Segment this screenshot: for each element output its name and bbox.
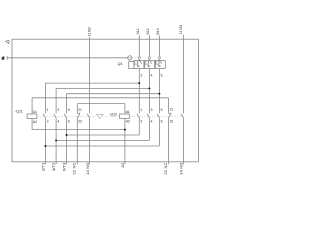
svg-text:14 NO: 14 NO (85, 162, 90, 174)
svg-text:-Q12: -Q12 (109, 112, 117, 116)
svg-text:6: 6 (161, 120, 163, 124)
svg-text:14 NO: 14 NO (179, 162, 184, 174)
svg-text:4: 4 (58, 120, 60, 124)
svg-text:6: 6 (161, 74, 163, 78)
svg-text:A2: A2 (126, 120, 130, 124)
svg-text:A2: A2 (33, 120, 37, 124)
svg-text:4: 4 (151, 74, 153, 78)
svg-text:-Q11: -Q11 (15, 110, 23, 114)
svg-text:A1: A1 (126, 110, 130, 114)
svg-text:1: 1 (141, 108, 143, 112)
svg-text:3: 3 (151, 108, 153, 112)
svg-text:-Q: -Q (5, 39, 10, 44)
svg-text:22: 22 (78, 120, 82, 124)
svg-text:13 NO: 13 NO (179, 24, 183, 34)
svg-text:3/L2: 3/L2 (146, 28, 150, 35)
svg-text:1: 1 (47, 108, 49, 112)
svg-text:21: 21 (78, 108, 82, 112)
svg-text:4: 4 (151, 120, 153, 124)
svg-text:-Q1: -Q1 (117, 62, 123, 66)
svg-text:4/T2: 4/T2 (51, 162, 56, 171)
svg-text:22 NC: 22 NC (71, 162, 76, 174)
svg-text:3: 3 (58, 108, 60, 112)
svg-text:5/L3: 5/L3 (156, 28, 160, 35)
svg-text:2: 2 (47, 120, 49, 124)
svg-text:2/T1: 2/T1 (40, 162, 45, 171)
svg-text:2: 2 (141, 120, 143, 124)
svg-text:A2: A2 (120, 162, 125, 168)
svg-text:6: 6 (68, 120, 70, 124)
svg-text:5: 5 (161, 108, 163, 112)
svg-text:5: 5 (68, 108, 70, 112)
svg-text:13 NO: 13 NO (87, 27, 91, 37)
svg-text:22: 22 (170, 120, 174, 124)
svg-text:2: 2 (141, 74, 143, 78)
svg-text:1/L1: 1/L1 (136, 28, 140, 35)
svg-text:21: 21 (170, 108, 174, 112)
svg-text:A1: A1 (33, 110, 37, 114)
svg-text:22 NC: 22 NC (163, 162, 168, 174)
svg-text:6/T3: 6/T3 (61, 162, 66, 171)
